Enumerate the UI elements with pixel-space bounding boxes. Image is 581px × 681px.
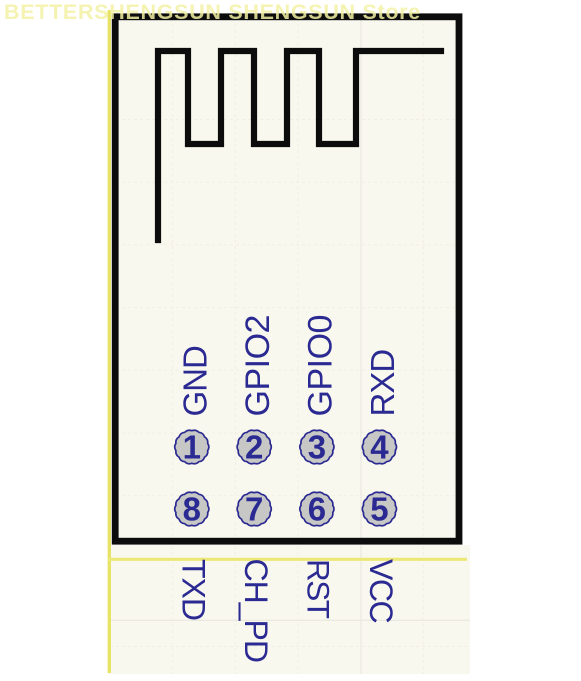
pad 1 (175, 429, 209, 466)
pin name GPIO0 (302, 315, 340, 416)
yellow board outline bottom (108, 558, 467, 561)
pin name GPIO2 (239, 315, 277, 416)
svg-text:GPIO0: GPIO0 (302, 315, 340, 416)
svg-text:BETTERSHENGSUN SHENGSUN Store: BETTERSHENGSUN SHENGSUN Store (4, 0, 421, 24)
svg-text:RST: RST (301, 559, 337, 619)
svg-text:5: 5 (370, 491, 388, 528)
board bottom strip (109, 545, 470, 674)
svg-text:TXD: TXD (176, 559, 212, 620)
pad 4 (362, 429, 396, 466)
svg-text:4: 4 (370, 429, 389, 466)
pad 6 (300, 491, 334, 528)
svg-text:GPIO2: GPIO2 (239, 315, 277, 416)
pad 8 (175, 491, 209, 528)
watermark (4, 0, 421, 24)
svg-text:6: 6 (308, 491, 326, 528)
svg-text:GND: GND (177, 346, 214, 417)
pad 2 (237, 429, 271, 466)
module outline (115, 17, 459, 541)
pad 7 (237, 491, 271, 528)
pin name RST (301, 559, 337, 619)
pad 3 (300, 429, 334, 466)
svg-text:RXD: RXD (364, 350, 401, 417)
module body (cream PCB area) (113, 14, 462, 544)
antenna trace (158, 51, 441, 240)
pin name TXD (176, 559, 212, 620)
pin name RXD (364, 350, 401, 417)
svg-text:VCC: VCC (363, 559, 399, 622)
pin name CH_PD (238, 559, 274, 662)
pin name VCC (363, 559, 399, 622)
pin name GND (177, 346, 214, 417)
pad 5 (362, 491, 396, 528)
svg-text:3: 3 (308, 429, 326, 466)
svg-text:7: 7 (245, 491, 263, 528)
svg-text:2: 2 (245, 429, 263, 466)
svg-text:8: 8 (183, 491, 201, 528)
yellow board outline left (108, 10, 111, 673)
svg-text:CH_PD: CH_PD (238, 559, 274, 662)
svg-text:1: 1 (183, 429, 201, 466)
